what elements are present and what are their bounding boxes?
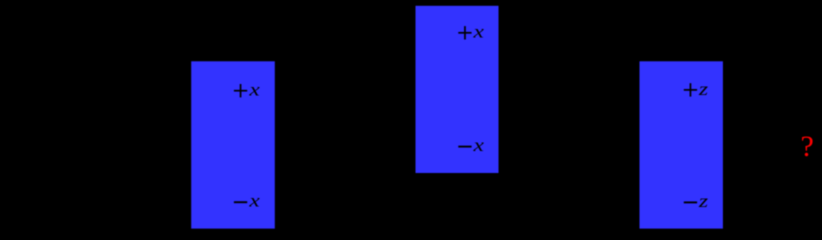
label +x (box 2 top output): [458, 26, 471, 39]
analyzer box 3 (z-analyzer): [640, 61, 723, 228]
label +z (box 3 top output): [684, 83, 697, 96]
svg-text:x: x: [472, 22, 484, 42]
analyzer box 2 (x-analyzer, upper path): [416, 6, 499, 173]
svg-text:?: ?: [801, 130, 814, 163]
label -x (box 2 bottom output): [458, 146, 471, 148]
analyzer box 1 (x-analyzer): [191, 61, 275, 228]
svg-text:x: x: [472, 135, 484, 155]
svg-text:x: x: [248, 80, 260, 100]
svg-text:z: z: [698, 191, 709, 211]
label -x (box 1 bottom output): [234, 201, 247, 203]
label +x (box 1 top output): [234, 84, 247, 97]
label -z (box 3 bottom output): [684, 201, 697, 203]
svg-text:x: x: [248, 191, 260, 211]
svg-text:z: z: [698, 79, 709, 99]
